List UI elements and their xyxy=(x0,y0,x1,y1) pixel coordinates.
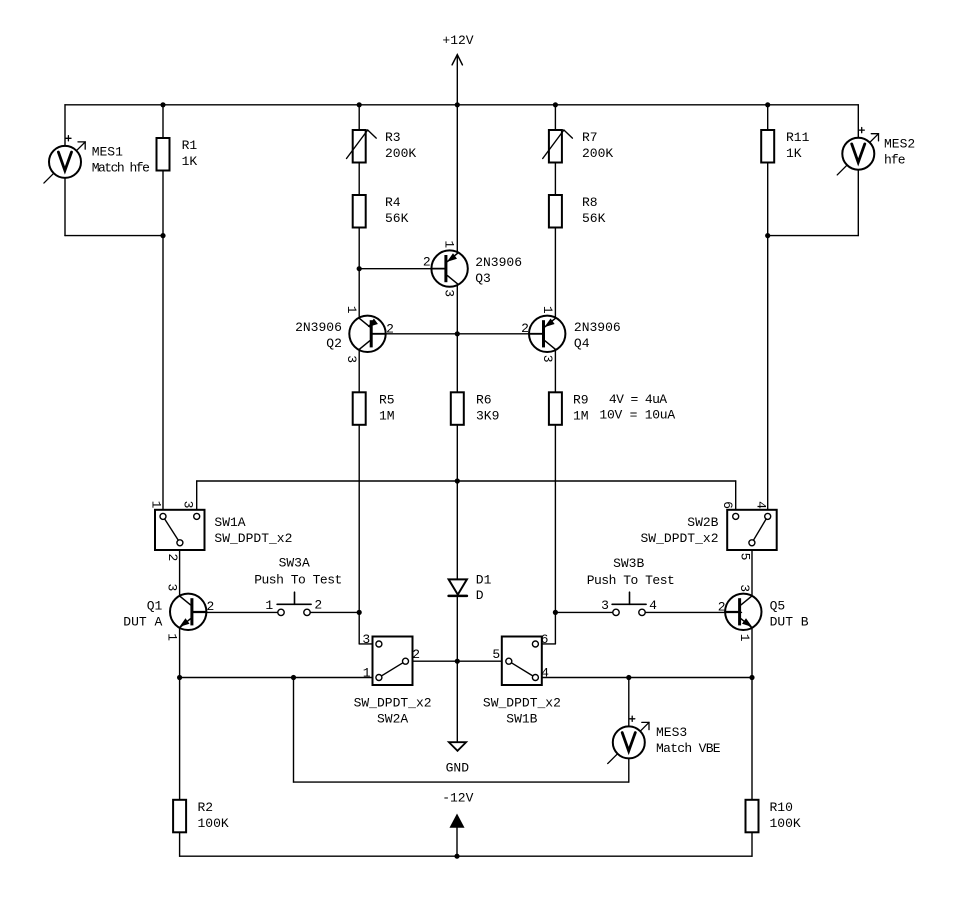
svg-text:56K: 56K xyxy=(385,211,409,226)
svg-text:Push To Test: Push To Test xyxy=(254,572,342,587)
svg-text:SW3A: SW3A xyxy=(279,556,310,571)
svg-text:1: 1 xyxy=(265,598,273,613)
svg-text:1: 1 xyxy=(442,240,457,248)
svg-text:2: 2 xyxy=(423,255,431,270)
svg-text:R3: R3 xyxy=(385,130,401,145)
svg-text:3: 3 xyxy=(601,598,609,613)
svg-text:3: 3 xyxy=(181,501,196,509)
svg-text:SW1A: SW1A xyxy=(214,515,245,530)
svg-text:5: 5 xyxy=(492,647,500,662)
svg-text:MES1: MES1 xyxy=(92,145,123,160)
svg-text:MES3: MES3 xyxy=(656,725,687,740)
svg-text:1: 1 xyxy=(363,665,371,680)
svg-text:MES2: MES2 xyxy=(884,137,915,152)
svg-text:3: 3 xyxy=(737,584,752,592)
svg-text:200K: 200K xyxy=(582,146,613,161)
svg-text:56K: 56K xyxy=(582,211,606,226)
svg-text:100K: 100K xyxy=(198,816,229,831)
svg-text:100K: 100K xyxy=(770,816,801,831)
svg-text:2: 2 xyxy=(206,599,214,614)
svg-text:1K: 1K xyxy=(786,146,802,161)
svg-text:10V = 10uA: 10V = 10uA xyxy=(599,408,675,423)
svg-text:200K: 200K xyxy=(385,146,416,161)
svg-text:R10: R10 xyxy=(770,800,793,815)
svg-text:2N3906: 2N3906 xyxy=(475,255,522,270)
svg-text:3: 3 xyxy=(540,355,555,363)
svg-text:2: 2 xyxy=(521,321,529,336)
svg-text:SW2A: SW2A xyxy=(377,712,408,727)
svg-text:2: 2 xyxy=(718,600,726,615)
svg-text:R7: R7 xyxy=(582,130,598,145)
svg-text:GND: GND xyxy=(446,760,470,775)
svg-text:R5: R5 xyxy=(379,393,395,408)
svg-text:R1: R1 xyxy=(182,138,198,153)
svg-text:D1: D1 xyxy=(476,573,492,588)
svg-text:Match VBE: Match VBE xyxy=(656,741,721,756)
svg-text:SW3B: SW3B xyxy=(613,556,644,571)
svg-text:DUT B: DUT B xyxy=(770,614,809,629)
svg-text:4: 4 xyxy=(649,598,657,613)
svg-text:1K: 1K xyxy=(182,154,198,169)
svg-text:2: 2 xyxy=(314,598,322,613)
svg-text:2: 2 xyxy=(412,647,420,662)
svg-text:Q2: Q2 xyxy=(326,336,342,351)
svg-text:4: 4 xyxy=(541,665,549,680)
svg-text:SW_DPDT_x2: SW_DPDT_x2 xyxy=(354,696,432,711)
svg-text:R6: R6 xyxy=(476,393,492,408)
svg-text:-12V: -12V xyxy=(442,791,473,806)
svg-text:3K9: 3K9 xyxy=(476,409,499,424)
svg-text:R8: R8 xyxy=(582,195,598,210)
svg-text:Q3: Q3 xyxy=(475,271,491,286)
svg-text:D: D xyxy=(476,588,484,603)
svg-text:6: 6 xyxy=(541,632,549,647)
svg-text:Q4: Q4 xyxy=(574,336,590,351)
svg-text:hfe: hfe xyxy=(884,153,905,168)
svg-text:3: 3 xyxy=(362,632,370,647)
svg-text:4V = 4uA: 4V = 4uA xyxy=(609,392,667,407)
svg-text:5: 5 xyxy=(738,553,753,561)
svg-text:2N3906: 2N3906 xyxy=(574,320,621,335)
svg-text:1: 1 xyxy=(149,501,164,509)
svg-text:R9: R9 xyxy=(573,393,589,408)
svg-text:R4: R4 xyxy=(385,195,401,210)
svg-text:1: 1 xyxy=(164,633,179,641)
svg-text:SW_DPDT_x2: SW_DPDT_x2 xyxy=(214,531,292,546)
svg-text:Q1: Q1 xyxy=(147,598,163,613)
svg-text:R2: R2 xyxy=(198,800,214,815)
svg-text:2: 2 xyxy=(386,322,394,337)
svg-text:+12V: +12V xyxy=(442,33,473,48)
svg-text:3: 3 xyxy=(442,289,457,297)
svg-text:SW1B: SW1B xyxy=(506,712,537,727)
svg-text:3: 3 xyxy=(344,355,359,363)
svg-text:Match hfe: Match hfe xyxy=(92,161,149,176)
svg-text:SW2B: SW2B xyxy=(687,515,718,530)
svg-text:1M: 1M xyxy=(573,409,589,424)
svg-text:2N3906: 2N3906 xyxy=(295,320,342,335)
svg-text:2: 2 xyxy=(165,553,180,561)
svg-text:SW_DPDT_x2: SW_DPDT_x2 xyxy=(640,531,718,546)
svg-text:6: 6 xyxy=(720,501,735,509)
svg-text:SW_DPDT_x2: SW_DPDT_x2 xyxy=(483,696,561,711)
svg-text:1: 1 xyxy=(737,634,752,642)
svg-text:1M: 1M xyxy=(379,409,395,424)
svg-text:DUT A: DUT A xyxy=(123,614,162,629)
svg-text:Q5: Q5 xyxy=(770,598,786,613)
svg-text:Push To Test: Push To Test xyxy=(587,573,675,588)
svg-text:4: 4 xyxy=(754,501,769,509)
svg-text:R11: R11 xyxy=(786,130,810,145)
svg-text:1: 1 xyxy=(540,306,555,314)
svg-text:3: 3 xyxy=(164,583,179,591)
svg-text:1: 1 xyxy=(344,306,359,314)
